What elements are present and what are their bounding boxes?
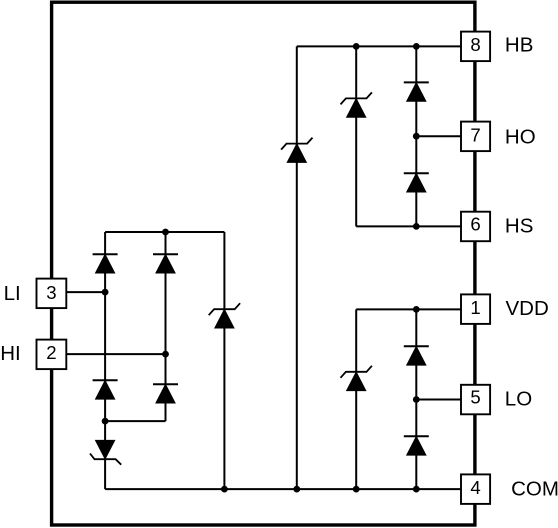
svg-text:HS: HS: [505, 215, 533, 238]
wire: zener Z4 column (top rail to COM): [223, 232, 225, 489]
wire: left cluster top rail: [105, 231, 224, 233]
wire: HS rail to pin 6: [356, 225, 461, 227]
svg-text:COM: COM: [511, 477, 558, 500]
svg-text:3: 3: [46, 282, 56, 303]
junction HB-D1: [413, 43, 420, 50]
svg-text:4: 4: [470, 477, 480, 498]
junction COM-Z1: [293, 486, 300, 493]
wire: HI stub: [66, 353, 165, 355]
junction COM-D4: [413, 486, 420, 493]
IC body outline: [52, 2, 475, 525]
wire: left column (top rail to COM): [104, 232, 106, 489]
svg-text:6: 6: [470, 213, 480, 234]
wire: bottom link: [105, 420, 165, 422]
junction LO-D column: [413, 396, 420, 403]
zener diode Z2 (x=356 upper): [341, 92, 372, 117]
junction top rail - middle column: [162, 229, 169, 236]
junction COM-Z4: [221, 486, 228, 493]
junction LI - left column: [102, 289, 109, 296]
zener diode Z4 (x=224 column): [209, 303, 240, 328]
wire: zener Z2 column (HB to HS): [355, 46, 357, 226]
pin 5 box: [461, 385, 490, 415]
diode D5 (left column upper): [93, 254, 118, 273]
svg-text:7: 7: [470, 124, 480, 145]
wire: diode D3/D4 column (VDD to COM): [415, 309, 417, 489]
zener diode Z1 (x=296.8 column): [281, 138, 312, 163]
junction HS-D column: [413, 223, 420, 230]
svg-text:LI: LI: [4, 282, 21, 305]
svg-text:VDD: VDD: [506, 297, 549, 320]
pin 1 box: [461, 294, 490, 324]
junction COM-Z3: [353, 486, 360, 493]
svg-text:5: 5: [470, 386, 480, 407]
wire: HB top rail: [297, 45, 461, 47]
diode D6 (middle column upper): [153, 254, 178, 273]
junction HI - middle column: [162, 351, 169, 358]
pin 2 box: [37, 340, 67, 370]
pin 4 box: [461, 474, 490, 504]
wire: LO stub: [416, 399, 461, 401]
svg-text:HO: HO: [505, 126, 536, 149]
wire: COM bottom rail: [105, 488, 461, 490]
junction VDD-D3: [413, 306, 420, 313]
junction link - left column: [102, 418, 109, 425]
junction HO-D column: [413, 133, 420, 140]
diode D7 (left column lower): [93, 380, 118, 399]
junction HB-Z2: [353, 43, 360, 50]
wire: zener Z3 column (VDD to COM): [355, 309, 357, 489]
svg-text:8: 8: [470, 34, 480, 55]
zener diode Z3 (x=356 lower): [341, 366, 372, 391]
svg-text:LO: LO: [505, 388, 532, 411]
svg-text:1: 1: [470, 297, 480, 318]
wire: middle column (top rail to link): [165, 232, 167, 421]
zener diode Z5 (left column, cathode down): [90, 441, 121, 465]
pin 8 box: [461, 32, 490, 61]
diode D2 (right column, HO-HS): [404, 173, 429, 192]
diode D3 (right column, VDD-LO): [404, 346, 429, 365]
diode D1 (right column, HB-HO): [404, 82, 429, 101]
wire: diode D1/D2 column (HB to HS): [415, 46, 417, 226]
svg-text:HB: HB: [505, 34, 533, 57]
diode D8 (middle column lower): [153, 384, 178, 403]
svg-text:HI: HI: [0, 342, 21, 365]
pin 3 box: [37, 279, 67, 309]
wire: VDD rail: [356, 308, 461, 310]
wire: HO stub: [416, 135, 461, 137]
wire: zener Z1 column (HB to COM): [296, 46, 298, 489]
pin 6 box: [461, 212, 490, 242]
wire: LI stub: [66, 291, 105, 293]
diode D4 (right column, LO-COM): [404, 436, 429, 455]
pin 7 box: [461, 122, 490, 152]
svg-text:2: 2: [46, 342, 56, 363]
